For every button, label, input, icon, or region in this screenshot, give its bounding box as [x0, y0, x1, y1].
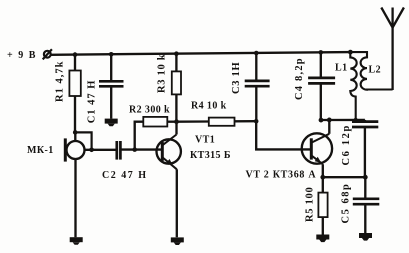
ground C5: [359, 233, 372, 241]
svg-text:C1 47 Н: C1 47 Н: [87, 80, 98, 124]
capacitor C3: [245, 53, 270, 121]
resistor R2: [135, 117, 177, 150]
svg-text:C5 68р: C5 68р: [341, 183, 352, 224]
ground microphone: [70, 237, 83, 245]
svg-text:КТ315 Б: КТ315 Б: [190, 150, 231, 161]
resistor R5: [318, 177, 327, 234]
wire VT2 collector node: [321, 119, 365, 121]
node C3-R4-VT2base: [254, 119, 259, 124]
node rail-R3: [174, 51, 179, 56]
capacitor C2: [117, 141, 163, 160]
svg-text:R5 100: R5 100: [305, 187, 316, 222]
svg-text:VT1: VT1: [195, 135, 215, 146]
svg-text:R2 300 k: R2 300 k: [129, 105, 170, 116]
svg-text:+ 9 В: + 9 В: [7, 50, 37, 61]
svg-text:R1 4,7k: R1 4,7k: [55, 61, 66, 102]
transistor VT1: [157, 122, 181, 238]
node rail-R1: [73, 52, 78, 57]
svg-text:L2: L2: [369, 65, 381, 76]
wire +9V rail: [51, 52, 351, 55]
resistor R3: [172, 54, 181, 122]
capacitor C1: [99, 54, 124, 118]
inductor L1: [350, 52, 356, 120]
capacitor C5: [353, 177, 380, 233]
terminal +9V: [43, 49, 52, 59]
node rail-C1: [109, 52, 114, 57]
node rail-C4: [319, 50, 324, 55]
node mic output: [89, 148, 94, 153]
node L1 bottom: [354, 118, 358, 122]
svg-text:МК-1: МК-1: [27, 145, 54, 156]
svg-text:L1: L1: [335, 63, 347, 74]
node rail-L1: [348, 50, 353, 55]
transistor VT2: [302, 120, 332, 177]
microphone MK-1: [65, 132, 84, 237]
svg-text:R4 10 k: R4 10 k: [191, 101, 227, 112]
svg-text:VT 2 КТ368 А: VT 2 КТ368 А: [246, 169, 317, 180]
wire node to VT2 base: [256, 121, 311, 149]
node emitter-C5: [363, 175, 368, 180]
ground C1: [105, 119, 118, 127]
svg-text:C6 12р: C6 12р: [341, 124, 352, 165]
antenna: [381, 8, 404, 91]
node R1-mic: [73, 130, 78, 135]
node VT2 emitter: [320, 175, 325, 180]
svg-text:C4 8,2р: C4 8,2р: [294, 57, 305, 100]
wire mic to C2: [85, 149, 117, 151]
resistor R4: [177, 118, 257, 126]
svg-text:R3 10 k: R3 10 k: [157, 54, 168, 93]
node VT1 collector: [174, 119, 179, 124]
ground R5: [316, 235, 329, 243]
node C2-R2-base: [132, 147, 137, 152]
wire emitter node: [323, 176, 366, 178]
capacitor C6: [352, 120, 378, 177]
capacitor C4: [308, 52, 335, 120]
node rail-C3: [254, 51, 259, 56]
inductor L2: [350, 52, 392, 90]
svg-text:C3 1Н: C3 1Н: [231, 62, 242, 94]
node collector line: [327, 118, 332, 123]
wire R1/mic to output node: [75, 132, 91, 149]
svg-text:C2 47 Н: C2 47 Н: [102, 170, 148, 181]
node C4-collector: [319, 118, 324, 123]
resistor R1: [69, 55, 80, 133]
ground VT1 emitter: [171, 237, 184, 245]
